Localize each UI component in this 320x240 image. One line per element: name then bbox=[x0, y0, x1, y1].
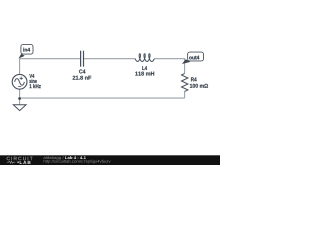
V4 name label bbox=[29, 74, 34, 78]
V4 value label 1 kHz bbox=[29, 84, 40, 88]
capacitor C4 plates bbox=[81, 51, 84, 67]
wire: V4 bottom to ground junction bbox=[19, 89, 21, 98]
footer title: user / project bbox=[44, 156, 64, 160]
footer logo waveform tick bbox=[17, 162, 19, 163]
inductor L4 coil bbox=[135, 54, 154, 62]
voltage source V4 (sine, 1 kHz) bbox=[12, 74, 27, 89]
ground symbol bbox=[13, 105, 26, 111]
net label out4 bbox=[189, 56, 199, 60]
footer logo LAB bbox=[20, 161, 31, 164]
net flag in4 pointer bbox=[19, 54, 25, 59]
wire: top rail, capacitor to inductor bbox=[84, 58, 135, 60]
C4 value label 21.8 nF bbox=[73, 76, 92, 80]
wire: top rail, source to capacitor bbox=[20, 58, 81, 60]
footer logo CIRCUIT bbox=[7, 157, 33, 161]
net flag in4 box bbox=[21, 44, 33, 54]
junction dot at ground node bbox=[18, 97, 21, 100]
footer url bbox=[44, 160, 111, 164]
wire: resistor bottom to bottom rail bbox=[184, 91, 186, 98]
footer bar bbox=[0, 155, 220, 165]
R4 value label 100 mOhm bbox=[190, 84, 208, 88]
R4 name label bbox=[191, 77, 197, 81]
wire: left vertical, node in4 down to V4 top bbox=[19, 58, 21, 74]
wire: right vertical, corner to resistor top bbox=[184, 58, 186, 73]
L4 value label 118 mH bbox=[135, 72, 154, 76]
wire: bottom return rail bbox=[20, 97, 185, 99]
L4 name label bbox=[142, 66, 147, 70]
wire: ground stub bbox=[19, 98, 21, 104]
wire: top rail, inductor to resistor corner bbox=[154, 58, 185, 60]
footer logo squiggle bbox=[7, 161, 16, 163]
V4 value label sine bbox=[29, 79, 37, 83]
resistor R4 zigzag bbox=[182, 73, 188, 91]
net flag out4 box bbox=[188, 52, 204, 61]
net flag out4 pointer bbox=[182, 59, 191, 64]
C4 name label bbox=[79, 69, 85, 73]
net label in4 bbox=[23, 48, 30, 52]
